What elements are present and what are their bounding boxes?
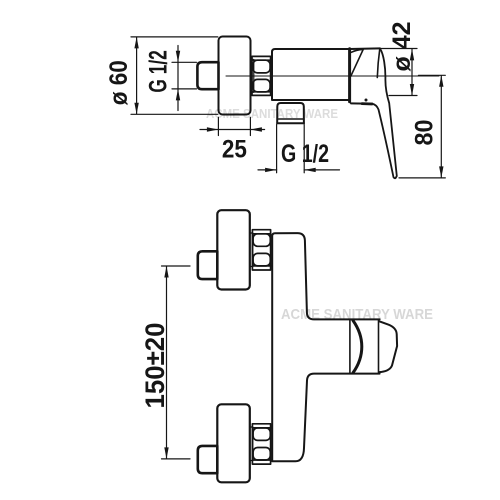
dim 150±20 line [166,267,168,459]
dim ø42 extension lines [381,48,418,50]
svg-text:ACME SANITARY WARE: ACME SANITARY WARE [281,307,433,323]
front view: body column with side arm [272,233,379,461]
front view: bottom wall connector [198,446,218,473]
front view: handle cap divider [378,320,380,373]
nut (top view) [252,56,271,95]
svg-text:150±20: 150±20 [140,323,170,409]
washer (top view) [251,60,254,93]
front view: bottom nut [252,424,270,464]
handle cap top edge (top view) [350,47,381,50]
dim 150±20 extension lines [162,265,191,267]
body right bold edge (top view) [348,49,351,102]
front view: handle dome flat edge [349,320,351,373]
front view: top washer [250,233,253,267]
dim 80 line [440,76,442,178]
front view: handle grip end [379,321,397,372]
front view: bottom flange [217,404,250,482]
flange (top view) [219,37,251,115]
handle cap crease (top view) [351,49,363,76]
dim ø60 extension lines [131,36,218,38]
front view: top nut [252,230,270,270]
dim G1/2 bottom extension lines [276,125,278,173]
dim ø42 line [411,49,413,95]
dim G1/2 left extension lines [172,61,197,63]
wall connector (top view) [197,62,218,89]
body (top view) [272,49,350,100]
front view: bottom washer [250,427,253,461]
svg-text:ø 60: ø 60 [105,60,133,105]
svg-text:80: 80 [411,120,439,146]
svg-text:25: 25 [222,136,247,164]
front view: top flange [217,210,250,289]
svg-text:G 1/2: G 1/2 [144,50,172,93]
svg-text:G 1/2: G 1/2 [281,140,329,168]
centerline top view [226,75,439,77]
dim G1/2 bottom line [258,169,277,171]
dim 25 extension lines [217,117,219,135]
handle lever blade (top view) [372,49,397,179]
outlet collar (top view) [277,103,304,123]
dim G1/2 left line [177,46,179,111]
dim 25 line [200,129,265,131]
handle dot (top view) [365,99,368,102]
front view: handle dome bold arc [353,321,362,373]
front view: top wall connector [198,251,218,279]
handle neck inner arc (top view) [377,49,380,78]
handle underside line (top view) [351,102,373,104]
svg-text:ø 42: ø 42 [388,22,416,72]
dim 80 extension lines [419,74,446,76]
dim ø60 line [136,38,138,114]
